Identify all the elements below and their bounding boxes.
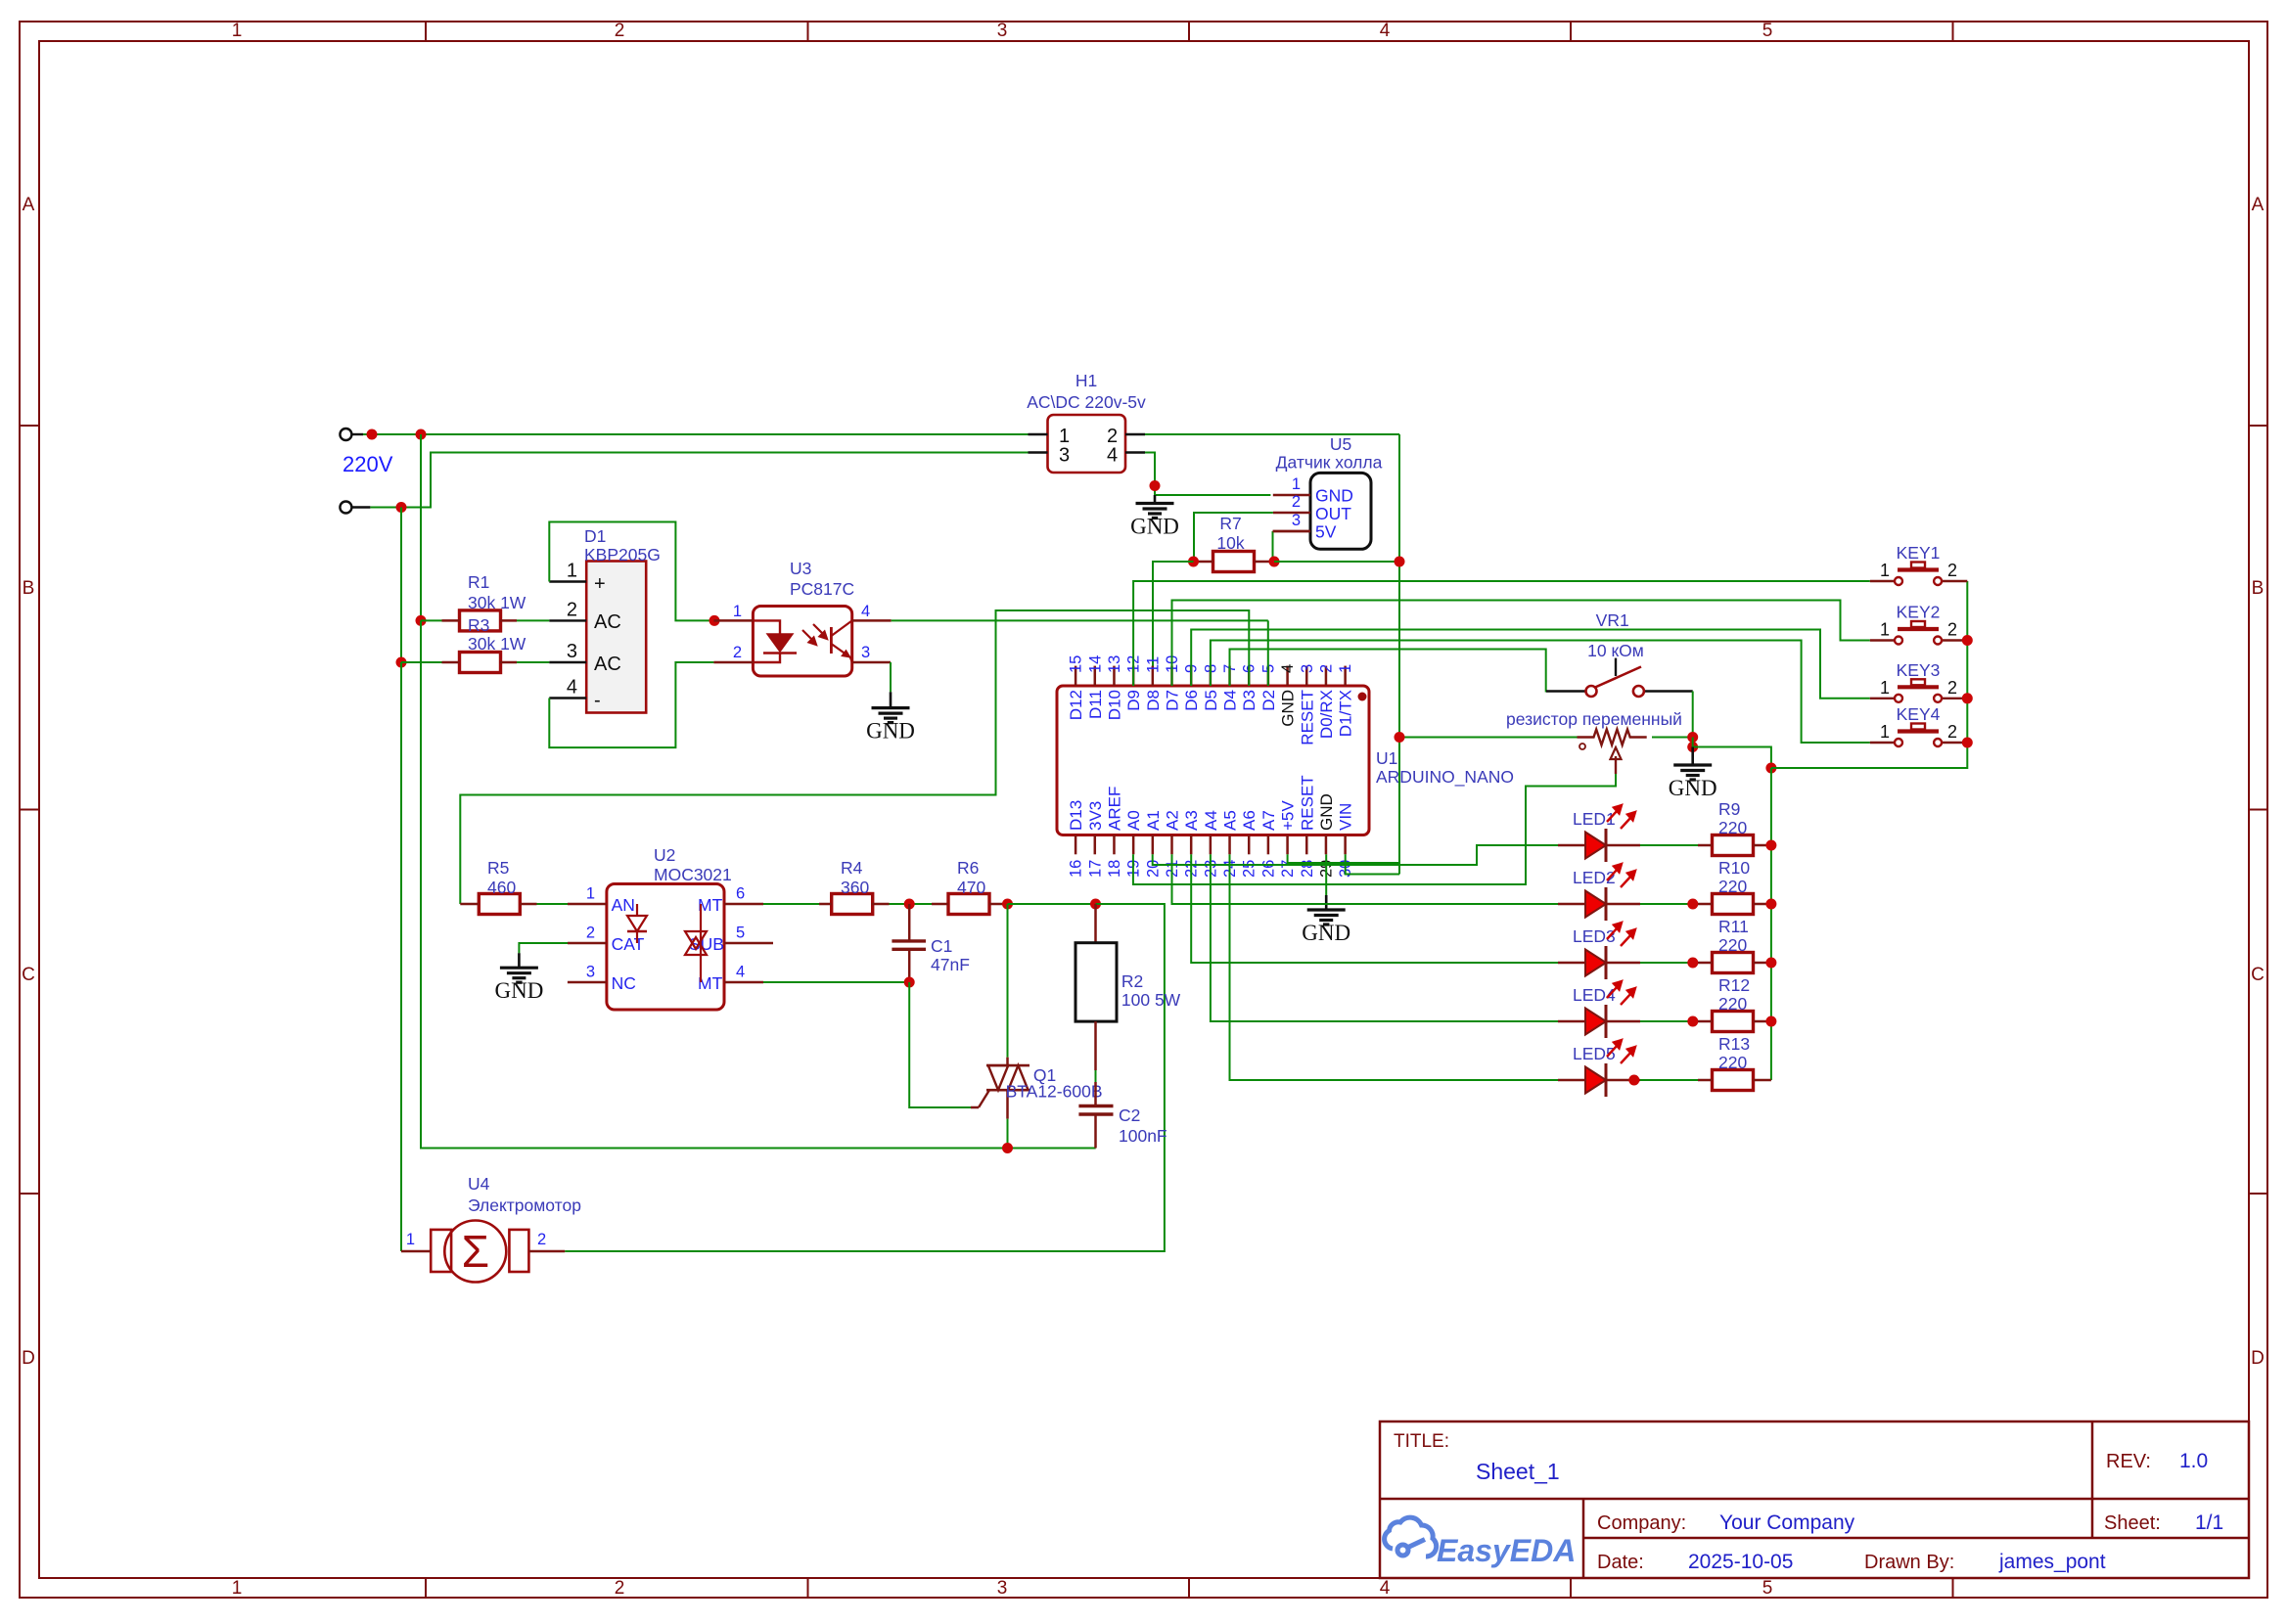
switch KEY3 [1870,660,1968,702]
svg-text:3: 3 [997,1578,1008,1599]
svg-text:D4: D4 [1221,690,1240,711]
junction dot [1687,1016,1698,1027]
junction dot [1687,958,1698,969]
svg-text:AC\DC 220v-5v: AC\DC 220v-5v [1027,392,1146,412]
svg-text:KEY2: KEY2 [1897,603,1941,622]
svg-text:C2: C2 [1119,1105,1140,1125]
diode LED3 [1558,923,1640,979]
wire Q1 to bottom net [1007,1119,1009,1149]
diode LED2 [1558,864,1640,921]
svg-text:D9: D9 [1124,690,1143,711]
svg-text:25: 25 [1241,860,1258,878]
wire D6 to KEY3 [1191,630,1870,699]
wire D5 to KEY4 [1211,641,1870,744]
svg-text:B: B [23,578,35,599]
junction dot [416,615,427,626]
resistor R5 460 [460,858,536,915]
svg-text:4: 4 [861,603,870,620]
junction dot [416,429,427,440]
svg-text:6: 6 [736,885,745,903]
resistor R6 470 [932,858,1008,915]
svg-text:Sheet:: Sheet: [2104,1512,2161,1534]
svg-text:A5: A5 [1221,810,1240,831]
svg-text:1: 1 [1880,620,1890,640]
diode LED4 [1558,981,1640,1038]
svg-text:3: 3 [1059,445,1070,467]
svg-text:A: A [23,195,35,215]
svg-text:A0: A0 [1124,810,1143,831]
wire D2 vertical [1267,620,1269,686]
wire LED4 cathode to resistor [1640,1020,1698,1022]
svg-text:Date:: Date: [1597,1552,1644,1573]
title block [1380,1421,2249,1578]
resistor R7 10k [1194,514,1275,572]
junction dot [1962,693,1973,703]
svg-text:GND: GND [1317,793,1336,831]
svg-text:220: 220 [1718,818,1747,837]
svg-text:R4: R4 [841,858,863,878]
svg-text:VIN: VIN [1337,803,1355,831]
svg-text:D8: D8 [1144,690,1163,711]
svg-text:Your Company: Your Company [1719,1511,1855,1534]
svg-text:D1/TX: D1/TX [1337,690,1355,737]
svg-text:3V3: 3V3 [1086,801,1105,831]
svg-text:13: 13 [1106,655,1123,673]
junction dot [1687,742,1698,752]
wire A0 to VR1 wiper [1133,774,1616,884]
module H1 AC\DC 220v-5v [1027,371,1146,473]
svg-text:Электромотор: Электромотор [468,1195,581,1215]
svg-text:KEY4: KEY4 [1897,704,1941,724]
svg-text:47nF: 47nF [931,955,970,974]
terminal J1 (L) [340,429,363,440]
svg-text:GND: GND [1302,921,1350,945]
EasyEDA logo [1385,1517,1577,1568]
svg-text:C: C [22,965,35,985]
svg-text:2: 2 [1947,561,1957,580]
junction dot [1765,763,1776,774]
svg-text:D5: D5 [1202,690,1220,711]
wire R4 to R6 [890,903,933,905]
junction dot [1962,738,1973,748]
wire L rail down to R1 [420,434,422,620]
svg-text:A3: A3 [1182,810,1201,831]
svg-text:KBP205G: KBP205G [584,545,661,564]
net label 220V [343,452,393,476]
resistor R4 360 [819,858,890,915]
svg-text:D3: D3 [1240,690,1258,711]
svg-text:R7: R7 [1219,514,1241,533]
optocoupler U2 MOC3021 [568,845,773,1010]
svg-text:D2: D2 [1259,690,1278,711]
switch KEY1 [1870,543,1968,585]
junction dot [1395,557,1405,567]
svg-text:GND: GND [1669,776,1717,800]
svg-text:+: + [594,573,606,595]
junction dot [396,657,407,668]
resistor R11 220 [1698,917,1771,973]
svg-text:D7: D7 [1164,690,1182,711]
svg-text:Датчик холла: Датчик холла [1276,453,1383,473]
svg-text:R11: R11 [1718,917,1749,936]
junction dot [1090,899,1101,910]
lead U5 pin3 [1273,530,1311,533]
svg-text:AN: AN [612,895,635,915]
svg-text:B: B [2252,578,2265,599]
svg-text:3: 3 [1292,512,1301,529]
wire N rail down to R3 [400,508,402,663]
wire U5 5V to R7 right [1272,531,1274,562]
svg-text:резистор переменный: резистор переменный [1506,709,1682,729]
wire A5 to LED5 [1230,854,1559,1080]
capacitor C1 47nF [892,904,969,982]
svg-text:220: 220 [1718,994,1747,1014]
svg-text:GND: GND [1315,486,1353,506]
lead Q1 gate [971,1090,989,1107]
wire L rail down to bottom net [421,620,1096,1148]
svg-text:R9: R9 [1718,799,1740,819]
svg-text:5: 5 [1762,1578,1773,1599]
wire D4 to VR1 switch [1230,650,1587,692]
svg-text:R12: R12 [1718,975,1750,995]
svg-text:GND: GND [1130,515,1179,539]
wire N rail down to motor pin1 [400,662,402,1251]
svg-text:R3: R3 [468,615,489,635]
wire R1 to D1 pin2 [517,619,549,621]
ground at U2 cathode [494,953,543,1003]
wire R7 to 5V rail [1274,561,1399,563]
svg-text:100nF: 100nF [1119,1126,1167,1146]
svg-text:2: 2 [1947,620,1957,640]
svg-text:26: 26 [1259,860,1277,878]
junction dot [709,615,720,626]
wire R6 to R2 node [1008,903,1096,905]
wire gnd net to KEY rail [1771,581,1967,768]
svg-text:5: 5 [1762,21,1773,41]
junction dot [1765,840,1776,851]
wire U3 pin3 to ground [890,662,892,692]
junction dot [1188,557,1199,567]
svg-text:OUT: OUT [1315,504,1351,523]
svg-text:1: 1 [1880,678,1890,698]
svg-text:james_pont: james_pont [1998,1551,2106,1573]
svg-text:GND: GND [1279,690,1298,727]
svg-text:R5: R5 [487,858,509,878]
resistor R13 220 [1698,1034,1771,1091]
svg-text:220: 220 [1718,1053,1747,1072]
wire D7 to KEY2 [1172,601,1870,687]
svg-text:D: D [22,1348,35,1369]
svg-text:EasyEDA: EasyEDA [1437,1533,1576,1568]
svg-text:U3: U3 [790,559,811,578]
svg-text:A4: A4 [1202,810,1220,831]
wire D1 pin1 loop to U3 pin1 [549,522,713,621]
svg-text:Σ: Σ [462,1226,489,1277]
svg-text:4: 4 [1380,21,1391,41]
svg-text:R13: R13 [1718,1034,1750,1054]
svg-text:4: 4 [567,677,577,699]
wire U3 pin4 to D2 [892,619,1268,621]
svg-text:2025-10-05: 2025-10-05 [1688,1551,1793,1573]
junction dot [396,502,407,513]
svg-text:U5: U5 [1330,434,1351,454]
resistor R3 30k 1W [401,615,526,673]
ground at U1 pin29 [1302,854,1350,945]
svg-text:1: 1 [1880,561,1890,580]
svg-text:VR1: VR1 [1596,610,1629,630]
svg-text:D1: D1 [584,526,606,546]
resistor R12 220 [1698,975,1771,1032]
svg-text:KEY3: KEY3 [1897,660,1941,680]
svg-text:11: 11 [1144,656,1162,673]
sensor U5 hall (Datchik holla) [1273,434,1383,549]
junction dot [1687,899,1698,910]
svg-text:1.0: 1.0 [2179,1450,2208,1472]
junction dot [1962,635,1973,646]
wire A1 to LED1 [1153,845,1558,865]
junction dot [1765,1016,1776,1027]
svg-text:D11: D11 [1086,690,1105,719]
svg-text:A6: A6 [1240,810,1258,831]
svg-text:460: 460 [487,878,516,897]
junction dot [904,977,915,988]
switch KEY2 [1870,603,1968,645]
mcu U1 ARDUINO_NANO [1057,655,1514,878]
svg-text:Company:: Company: [1597,1512,1686,1534]
svg-text:3: 3 [861,644,870,661]
wire C1 node to Q1 gate [909,982,971,1107]
wire D3 to R5 [460,610,1249,904]
potentiometer VR1 10 kOm [1506,610,1693,774]
svg-text:5V: 5V [1315,522,1337,542]
svg-text:2: 2 [1317,664,1335,673]
svg-text:KEY1: KEY1 [1897,543,1941,563]
svg-text:3: 3 [1299,664,1316,673]
svg-text:4: 4 [1380,1578,1391,1599]
svg-text:RESET: RESET [1298,775,1316,831]
svg-text:1: 1 [406,1231,415,1248]
svg-text:A1: A1 [1144,810,1163,831]
svg-text:MOC3021: MOC3021 [654,865,732,884]
junction dot [1765,958,1776,969]
resistor R9 220 [1698,799,1771,856]
svg-text:2: 2 [537,1231,546,1248]
svg-text:H1: H1 [1075,371,1097,390]
svg-text:10k: 10k [1216,533,1244,553]
svg-text:RESET: RESET [1298,690,1316,745]
wire U2 pin2 to ground [519,943,568,953]
optocoupler U3 PC817C [713,559,891,676]
wire VR1 gnd link [1693,738,1771,769]
ground at H1 pin4 net [1130,495,1179,539]
svg-text:BTA12-600B: BTA12-600B [1006,1082,1103,1102]
svg-text:AC: AC [594,611,621,633]
svg-text:2: 2 [615,1578,625,1599]
wire D1 pin4 loop to U3 pin2 [549,662,713,747]
svg-text:18: 18 [1106,860,1123,878]
svg-text:D13: D13 [1067,800,1085,831]
svg-text:U2: U2 [654,845,675,865]
svg-text:2: 2 [1947,678,1957,698]
junction dot [904,899,915,910]
svg-text:16: 16 [1068,860,1085,878]
svg-text:D0/RX: D0/RX [1317,690,1336,739]
svg-text:4: 4 [1107,445,1118,467]
svg-text:1: 1 [232,21,243,41]
svg-text:3: 3 [586,964,595,981]
svg-text:CAT: CAT [612,934,645,954]
svg-text:ARDUINO_NANO: ARDUINO_NANO [1376,767,1514,788]
svg-text:1/1: 1/1 [2195,1511,2223,1534]
wire R7 left to D8 [1153,562,1194,686]
wire 5V rail to VR1 left [1399,737,1578,739]
svg-text:U1: U1 [1376,748,1397,768]
wire A4 to LED4 [1211,854,1558,1021]
wire LED5 cathode to resistor [1640,1079,1698,1081]
junction dot [1002,899,1013,910]
svg-text:U4: U4 [468,1174,490,1194]
resistor R10 220 [1698,858,1771,915]
bridge rectifier D1 KBP205G [549,526,661,713]
wire R5 to U2 pin1 [537,903,569,905]
wire U1 VIN pin30 to 5V rail [1346,854,1399,874]
svg-text:1: 1 [567,561,577,582]
svg-text:30k 1W: 30k 1W [468,593,526,612]
wire R2 node to motor return [565,904,1165,1251]
svg-text:REV:: REV: [2106,1451,2151,1472]
svg-text:1: 1 [1880,722,1890,742]
svg-text:2: 2 [567,599,577,620]
svg-text:D: D [2251,1348,2265,1369]
svg-text:+5V: +5V [1279,800,1298,831]
svg-text:4: 4 [1279,664,1297,673]
wire U2 pin6 to R4 [763,903,819,905]
svg-text:A2: A2 [1164,810,1182,831]
wire U1 +5V pin27 to 5V rail [1288,854,1399,863]
svg-text:D12: D12 [1067,690,1085,720]
svg-text:1: 1 [586,885,595,903]
svg-text:220V: 220V [343,452,393,476]
wire VR1 right to switch [1652,692,1693,738]
wire H1 pin4 to U5 GND net [1145,453,1270,496]
svg-text:220: 220 [1718,877,1747,896]
svg-text:17: 17 [1086,860,1104,878]
svg-text:15: 15 [1068,655,1085,673]
svg-text:C: C [2251,965,2265,985]
svg-text:D10: D10 [1105,690,1123,720]
svg-text:NC: NC [612,973,636,993]
svg-text:2: 2 [1292,493,1301,511]
svg-text:2: 2 [733,644,742,661]
svg-text:R10: R10 [1718,858,1750,878]
svg-text:2: 2 [615,21,625,41]
wire U5 OUT to R7 left [1194,513,1273,562]
junction dot [1395,732,1405,743]
svg-text:1: 1 [733,603,742,620]
svg-text:PC817C: PC817C [790,579,854,599]
wire U2 pin4 to C1 node [763,981,909,983]
svg-text:3: 3 [567,641,577,662]
svg-text:AREF: AREF [1105,787,1123,831]
wire H1 pin2 to 5V rail [1145,433,1399,435]
junction dot [1150,480,1161,491]
wire A2 to LED2 [1172,854,1559,904]
svg-text:2: 2 [586,925,595,942]
wire R2 to C2 [1095,1070,1097,1082]
svg-text:5: 5 [736,925,745,942]
resistor R1 30k 1W [421,572,526,631]
terminal J2 (N) [340,502,370,514]
diode LED1 [1558,805,1640,862]
wire A3 to LED3 [1191,854,1558,963]
wire N to H1 pin3 [370,453,1028,508]
diode LED5 [1558,1040,1640,1097]
svg-text:GND: GND [494,978,543,1003]
svg-text:Sheet_1: Sheet_1 [1476,1459,1560,1484]
switch KEY4 [1870,704,1968,746]
junction dot [1628,1075,1639,1086]
svg-text:AC: AC [594,654,621,675]
junction dot [1269,557,1280,567]
svg-text:SUB: SUB [689,934,724,954]
svg-text:2: 2 [1947,722,1957,742]
svg-text:470: 470 [957,878,985,897]
wire R3 to D1 pin3 [517,661,549,663]
svg-text:GND: GND [866,719,915,744]
junction dot [1687,732,1698,743]
svg-text:3: 3 [997,21,1008,41]
triac Q1 BTA12-600B [986,904,1103,1119]
capacitor C2 100nF [1078,1082,1167,1149]
wire 5V rail vertical [1398,434,1400,875]
svg-text:Drawn By:: Drawn By: [1864,1552,1954,1573]
svg-text:4: 4 [736,964,745,981]
svg-text:TITLE:: TITLE: [1394,1431,1449,1452]
ground at VR1 [1669,747,1717,801]
wire D9 to KEY1 [1133,581,1870,686]
svg-text:-: - [594,690,601,711]
wire LED3 cathode to resistor [1640,962,1698,964]
svg-text:R2: R2 [1121,971,1143,991]
svg-text:R1: R1 [468,572,489,592]
svg-text:100 5W: 100 5W [1121,990,1181,1010]
svg-text:R6: R6 [957,858,979,878]
svg-text:10 кОм: 10 кОм [1587,641,1644,660]
wire LED1 cathode to resistor [1640,844,1698,846]
svg-text:14: 14 [1086,655,1104,673]
svg-text:C1: C1 [931,936,952,956]
svg-text:360: 360 [841,878,869,897]
svg-text:A7: A7 [1259,810,1278,831]
svg-text:30k 1W: 30k 1W [468,634,526,654]
junction dot [1002,1143,1013,1153]
svg-text:220: 220 [1718,935,1747,955]
wire LED2 cathode to resistor [1640,903,1698,905]
ground at U3 emitter [866,692,915,743]
svg-text:1: 1 [1337,664,1354,673]
resistor R2 100 5W [1075,904,1181,1070]
junction dot [1765,899,1776,910]
wire gnd net down resistor rail [1770,768,1772,1080]
wire L to H1 pin1 [363,433,1029,435]
svg-text:A: A [2252,195,2265,215]
junction dot [367,429,378,440]
svg-text:1: 1 [232,1578,243,1599]
motor U4 Electromotor [401,1174,581,1283]
svg-text:1: 1 [1292,475,1301,493]
svg-text:D6: D6 [1182,690,1201,711]
